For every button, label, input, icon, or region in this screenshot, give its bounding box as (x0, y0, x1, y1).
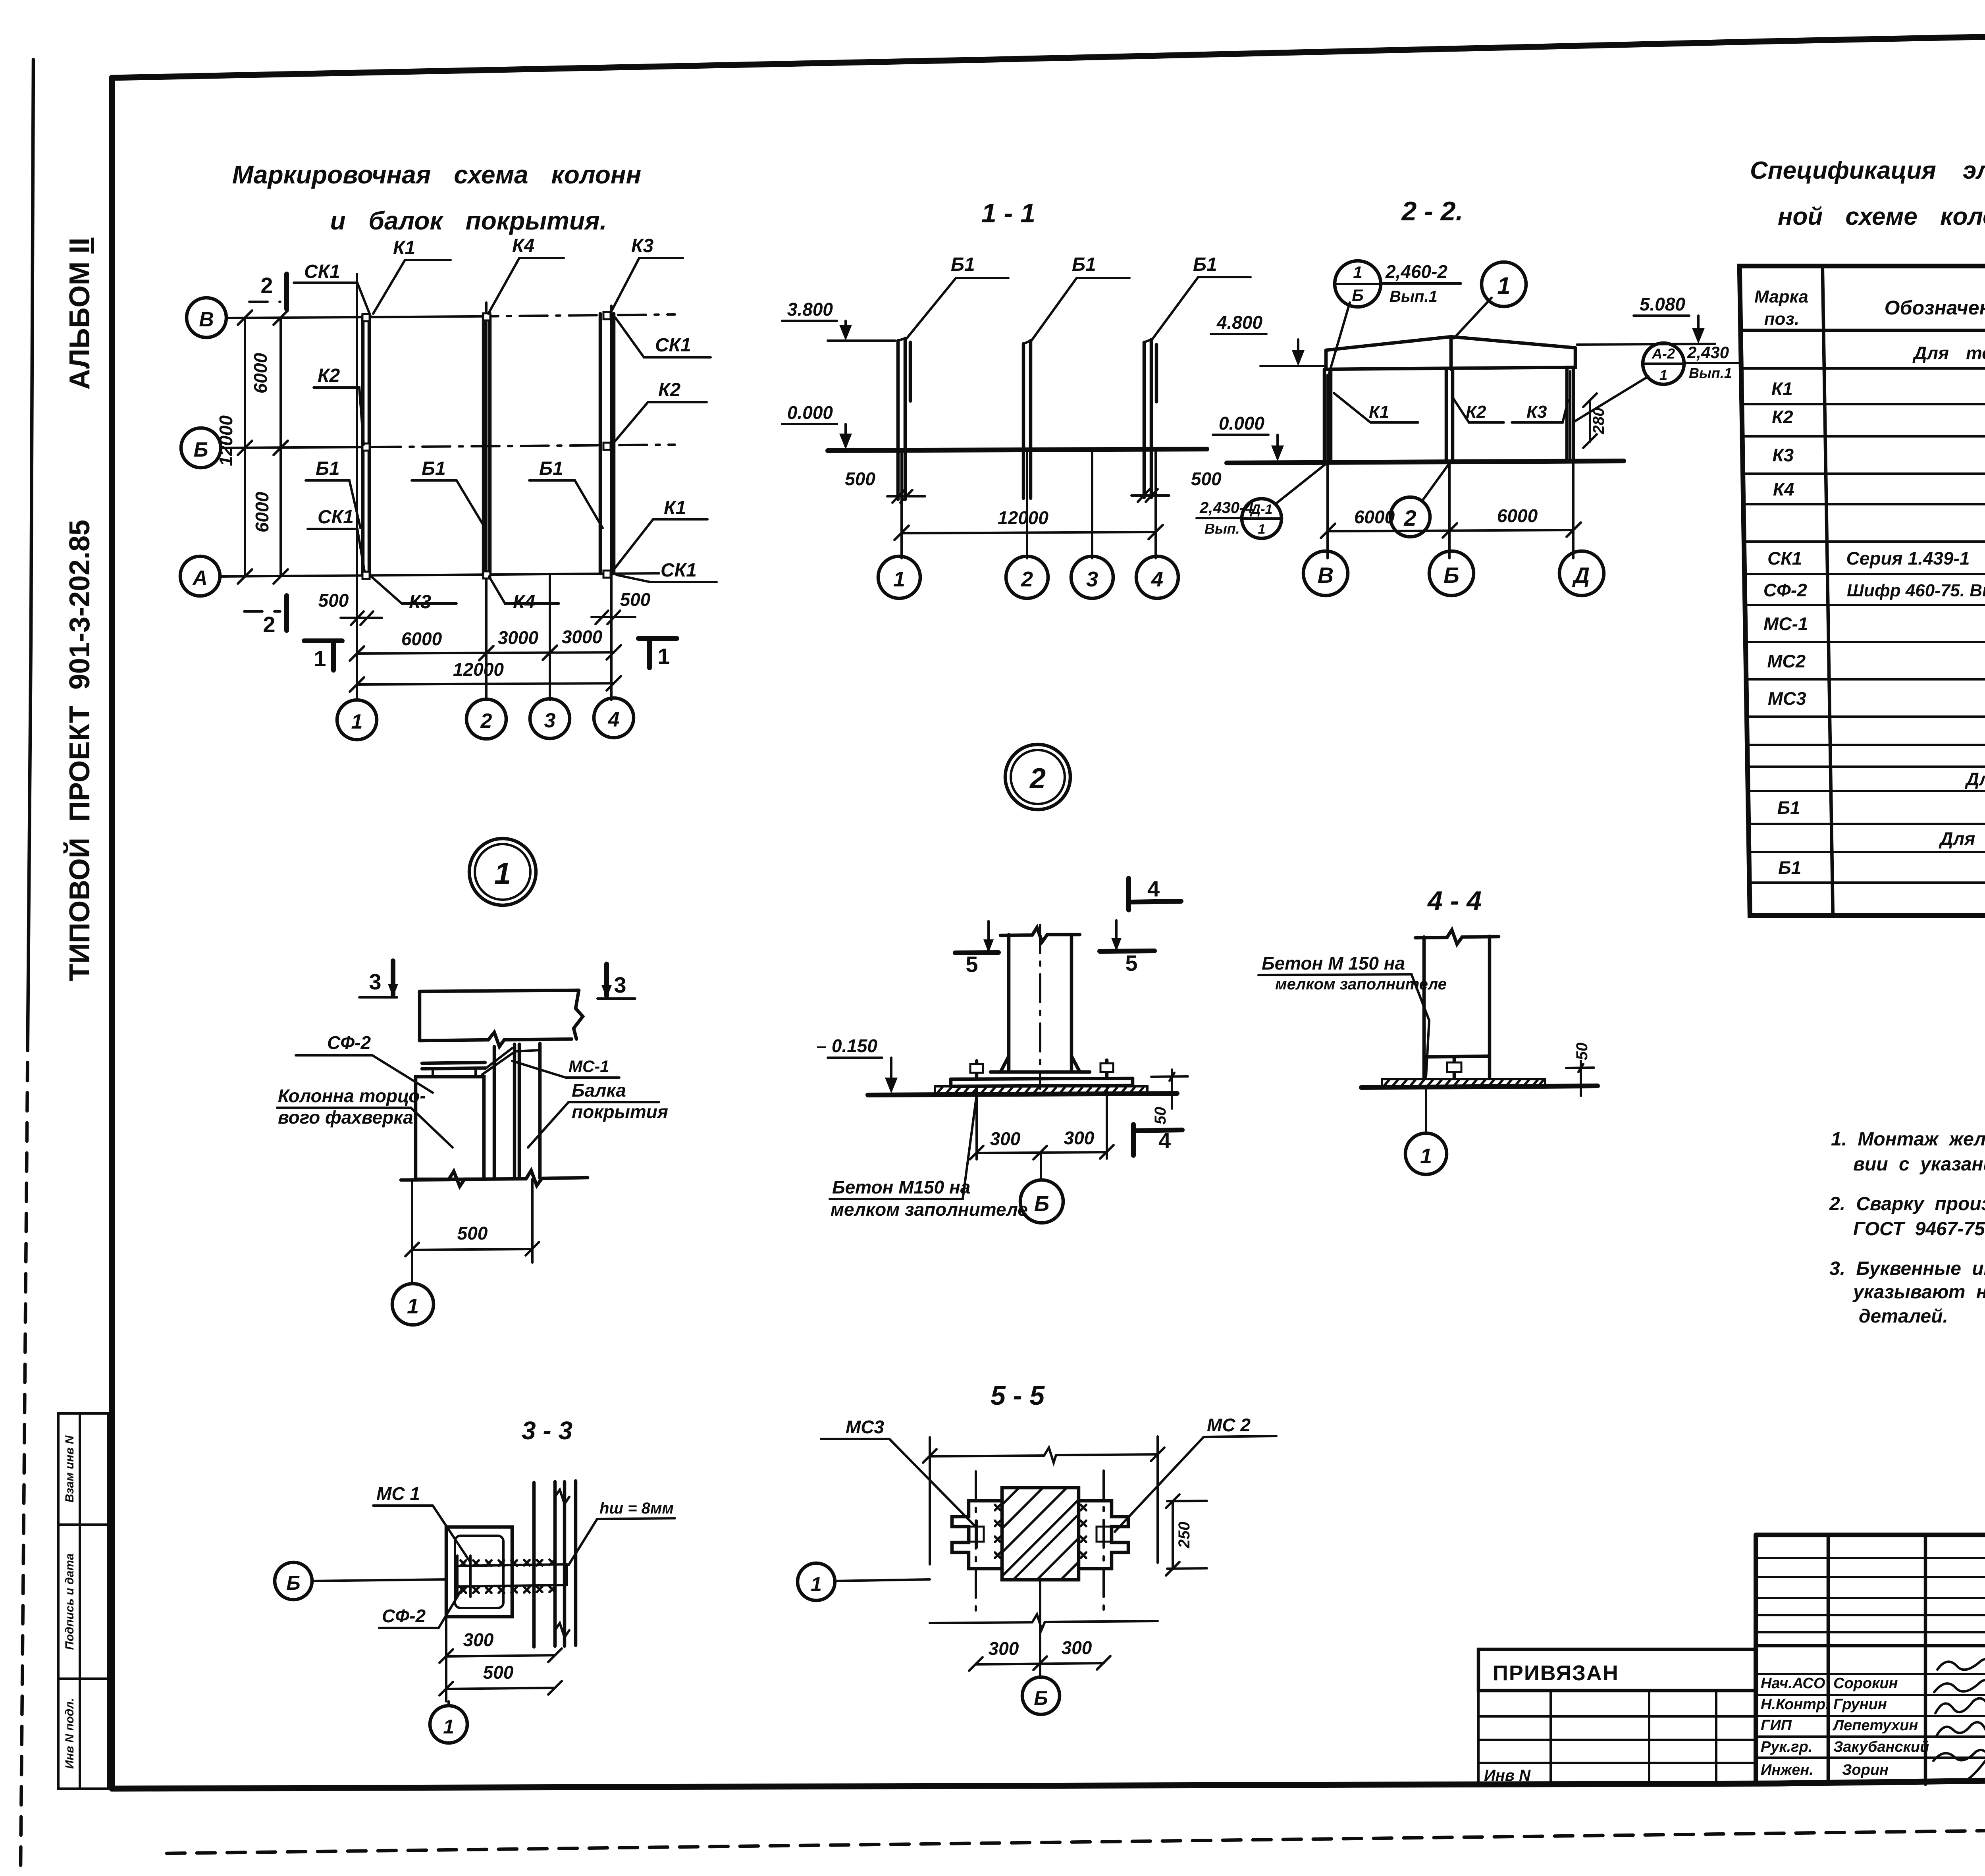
label СК1 top left (294, 261, 371, 317)
grid axis circle Б (181, 428, 221, 468)
svg-text:МС3: МС3 (1767, 688, 1806, 709)
svg-text:500: 500 (1191, 469, 1222, 489)
svg-text:3000: 3000 (562, 627, 603, 647)
svg-text:300: 300 (1062, 1637, 1092, 1658)
title block mid full line (1756, 1644, 1985, 1648)
СФ-2 element in plan with welds (detail 3-3) (457, 1556, 567, 1597)
svg-text:МС3: МС3 (846, 1417, 885, 1437)
svg-text:К1: К1 (1771, 378, 1793, 399)
label Балка покрытия (528, 1080, 668, 1147)
svg-text:Шифр 460-75. Вып.1,2: Шифр 460-75. Вып.1,2 (1846, 581, 1985, 600)
grid circle В (2-2) (1303, 551, 1348, 596)
svg-text:К2: К2 (318, 365, 340, 386)
column foot flanges (base detail) (991, 1056, 1090, 1072)
svg-text:1: 1 (314, 646, 326, 671)
label МС3 (detail 5-5) (821, 1417, 981, 1532)
grout pad hatched (detail 4-4) (1382, 1079, 1545, 1087)
column post axis4 (1-1) (1144, 339, 1156, 497)
label Б1 axis2 (412, 458, 485, 528)
svg-text:Б: Б (194, 438, 208, 461)
beam покрытия (detail 1) (420, 990, 583, 1047)
svg-text:300: 300 (989, 1638, 1019, 1659)
svg-text:Инв N подл.: Инв N подл. (63, 1698, 76, 1769)
label К1 top (373, 237, 451, 314)
svg-text:указывают на наличие дополн: указывают на наличие дополнительных закл… (1852, 1282, 1985, 1303)
detail bubble 2 (double circle) (1005, 744, 1070, 810)
dim line 6000 3000 3000 (350, 627, 621, 661)
svg-text:Инв N: Инв N (1484, 1767, 1531, 1784)
svg-text:6000: 6000 (250, 353, 271, 393)
grid axis circle В (187, 298, 226, 337)
svg-text:ТИПОВОЙ ПРОЕКТ 901-3-202.85: ТИПОВОЙ ПРОЕКТ 901-3-202.85 (63, 520, 96, 981)
svg-text:12000: 12000 (998, 507, 1048, 528)
dim line 12000 (350, 659, 621, 692)
svg-text:3 - 3: 3 - 3 (522, 1416, 572, 1445)
signature squiggles (1933, 1658, 1985, 1782)
svg-text:Спецификация элементов к: Спецификация элементов к маркировоч- (1750, 157, 1985, 184)
dim 500 (detail 3-3) (439, 1617, 562, 1701)
section mark 4 top (base detail) (1129, 876, 1181, 910)
svg-text:Для температуры tн =-20°с,-3: Для температуры tн =-20°с,-30°с,-40°с (1912, 343, 1985, 363)
row МС3 (1767, 688, 1985, 709)
svg-text:МС-1: МС-1 (569, 1057, 609, 1076)
dim 250 (detail 5-5) (1166, 1494, 1207, 1575)
label К2 (2-2) (1453, 399, 1504, 422)
label СК1 left lower (308, 507, 364, 571)
section 1-1 ground line (828, 449, 1207, 451)
svg-text:Б1: Б1 (1193, 254, 1217, 275)
svg-text:К2: К2 (1771, 407, 1793, 427)
svg-text:Сорокин: Сорокин (1833, 1675, 1898, 1692)
svg-text:К1: К1 (664, 497, 686, 519)
svg-text:вии с указаниями серии 1.42: вии с указаниями серии 1.423-3. 460 - 75 (1853, 1154, 1985, 1175)
grid line А (220, 573, 659, 576)
detail 5-5 title (991, 1380, 1045, 1411)
row СФ-2 (1763, 580, 1985, 600)
axis dash-dot lines (detail 5-5) (976, 1471, 1104, 1610)
svg-text:hш = 8мм: hш = 8мм (599, 1500, 674, 1517)
grid bubble Б (detail 5-5) (1022, 1580, 1060, 1714)
svg-text:4: 4 (608, 708, 620, 731)
row К4 (1773, 479, 1985, 499)
label К1 right lower (615, 497, 707, 569)
grid circle 1 (337, 700, 377, 740)
dim 500 (1-1 right) (1131, 469, 1222, 502)
table row lines (1741, 368, 1985, 883)
level mark 0.000 (2-2) (1213, 413, 1284, 461)
svg-text:Д-1: Д-1 (1250, 502, 1273, 517)
svg-text:Б1: Б1 (316, 458, 340, 479)
svg-text:300: 300 (463, 1629, 494, 1650)
svg-text:мелком заполнителе: мелком заполнителе (831, 1199, 1028, 1220)
dim 500 (1-1 left) (845, 469, 925, 503)
section mark 3 left (detail 1) (359, 961, 398, 997)
bubble Д-1 ref 2.430-4 (1197, 464, 1326, 538)
svg-text:1: 1 (494, 857, 511, 891)
grid circle 3 (530, 699, 570, 738)
detail 3-3 title (522, 1416, 572, 1445)
dim 500 left (318, 590, 382, 625)
row Б1 (КЖИ 60) (1777, 797, 1985, 818)
header Обозначение (1884, 297, 1985, 319)
svg-text:СК1: СК1 (655, 335, 691, 356)
svg-text:К4: К4 (1773, 479, 1794, 499)
dim 280 (2-2 right) (1583, 393, 1607, 448)
svg-text:Б: Б (1352, 286, 1364, 305)
row МС-1 (1763, 613, 1985, 634)
svg-text:500: 500 (457, 1223, 488, 1244)
svg-text:6000: 6000 (252, 492, 272, 532)
svg-text:1: 1 (407, 1294, 419, 1318)
svg-text:6000: 6000 (1497, 505, 1538, 526)
svg-text:Рук.гр.: Рук.гр. (1761, 1739, 1812, 1755)
svg-text:5 - 5: 5 - 5 (991, 1380, 1045, 1411)
label Б1 axis4 (529, 458, 603, 528)
svg-text:3: 3 (1086, 567, 1098, 591)
svg-text:500: 500 (845, 469, 875, 489)
svg-text:1: 1 (893, 567, 905, 591)
label Б1 post2 (1031, 254, 1129, 341)
svg-text:ГИП: ГИП (1761, 1717, 1792, 1734)
level mark 4.800 (1211, 312, 1324, 366)
dim 300 300 (detail 5-5) (969, 1637, 1110, 1671)
grid circle Д (2-2) (1559, 551, 1604, 596)
svg-text:В: В (199, 308, 214, 331)
svg-text:4: 4 (1147, 876, 1160, 901)
bubble 1 (roof apex) (1454, 262, 1526, 338)
svg-text:1: 1 (443, 1716, 454, 1738)
label МС2 (detail 5-5) (1115, 1415, 1276, 1532)
label К4 top (488, 235, 564, 314)
inner base line and anchor (detail 4-4) (1424, 1056, 1490, 1078)
bubble 1 (detail 5-5) (798, 1563, 930, 1600)
column Б (2-2) (1446, 369, 1453, 462)
top dim line (detail 5-5) (923, 1436, 1164, 1564)
svg-text:Нач.АСО: Нач.АСО (1761, 1675, 1825, 1692)
svg-text:1: 1 (1420, 1144, 1432, 1168)
svg-text:1: 1 (1353, 263, 1362, 281)
svg-text:Грунин: Грунин (1833, 1696, 1887, 1713)
level -0.150 (817, 1035, 898, 1093)
svg-text:МС 1: МС 1 (376, 1483, 420, 1504)
section mark 1 bottom left (304, 641, 342, 671)
svg-text:1 - 1: 1 - 1 (981, 198, 1035, 228)
dim 50 (detail 4-4) (1566, 1043, 1594, 1096)
svg-text:К2: К2 (1466, 402, 1486, 422)
svg-text:Взам инв N: Взам инв N (63, 1435, 76, 1502)
ground line (detail 4-4) (1361, 1086, 1598, 1087)
svg-text:500: 500 (318, 590, 349, 611)
signature row lines (1756, 1674, 1985, 1758)
svg-text:2: 2 (263, 612, 275, 637)
svg-text:280: 280 (1590, 408, 1607, 435)
svg-text:МС 2: МС 2 (1207, 1415, 1251, 1435)
grid bubble 1 (detail 4-4) (1405, 1087, 1447, 1174)
grid bubble 1 (detail 1) (392, 1284, 434, 1325)
label Бетон М150 (base detail) (830, 1095, 1028, 1220)
svg-text:МС-1: МС-1 (1763, 613, 1808, 634)
left vertical dim line 12000 (216, 310, 252, 584)
svg-text:1: 1 (1659, 367, 1667, 383)
svg-text:Обозначение: Обозначение (1884, 297, 1985, 319)
dim 300 (detail 3-3) (439, 1629, 562, 1663)
svg-text:3000: 3000 (498, 627, 539, 648)
svg-text:Б1: Б1 (1777, 797, 1800, 818)
section mark 2 bottom (244, 596, 287, 637)
svg-text:К4: К4 (513, 592, 535, 613)
label Б1 axis1 (306, 458, 360, 528)
label Колонна торцового фахверка (277, 1085, 453, 1147)
detail bubble 1 (double circle) (469, 839, 536, 905)
band t=-30-40 row (1938, 828, 1985, 849)
svg-text:4 - 4: 4 - 4 (1427, 886, 1482, 916)
grid line В (226, 314, 675, 318)
svg-text:покрытия: покрытия (572, 1101, 668, 1122)
СФ-2 steel element plate (detail 1) (422, 1048, 513, 1074)
label СФ-2 (detail 1) (296, 1032, 433, 1093)
svg-text:Б: Б (286, 1572, 300, 1594)
dim 500 right (592, 589, 651, 624)
svg-text:2: 2 (1021, 567, 1033, 591)
label К3 (2-2) (1512, 400, 1568, 422)
svg-text:500: 500 (483, 1662, 514, 1683)
anchor bolts (base detail) (970, 1060, 1113, 1078)
grid circle Б (2-2) (1429, 551, 1474, 596)
svg-text:мелком заполнителе: мелком заполнителе (1275, 976, 1447, 993)
svg-text:МС2: МС2 (1767, 651, 1806, 671)
title block outer (1756, 1535, 1985, 1783)
band t=-20 row (1964, 769, 1985, 789)
svg-text:Б1: Б1 (422, 458, 446, 479)
svg-text:и балок покрытия.: и балок покрытия. (330, 206, 607, 235)
level mark 0.000 (1-1) (782, 402, 852, 449)
svg-text:2: 2 (1029, 763, 1046, 794)
label hш=8мм (detail 3-3) (569, 1500, 675, 1565)
svg-text:К4: К4 (512, 235, 534, 256)
svg-text:2: 2 (480, 710, 492, 733)
svg-text:СК1: СК1 (318, 507, 354, 528)
svg-text:12000: 12000 (216, 415, 236, 466)
svg-text:Вып.1: Вып.1 (1689, 365, 1732, 381)
svg-text:2. Сварку производить элект: 2. Сварку производить электродами типа Э… (1829, 1193, 1985, 1215)
label СК1 bottom right (617, 560, 717, 582)
svg-text:К1: К1 (393, 237, 415, 258)
section 2-2 roof beam (1326, 337, 1575, 375)
section 2-2 title (1401, 196, 1463, 226)
band temperatures row (1912, 343, 1985, 363)
svg-text:1: 1 (1497, 272, 1510, 299)
dim line 12000 (1-1) (894, 449, 1163, 558)
svg-text:Д: Д (1572, 563, 1590, 588)
svg-text:Марка: Марка (1754, 287, 1809, 307)
svg-text:4.800: 4.800 (1216, 312, 1263, 333)
svg-text:Зорин: Зорин (1842, 1762, 1889, 1778)
svg-text:5: 5 (966, 952, 978, 977)
table header row line (1740, 329, 1985, 332)
label К2 left (314, 365, 364, 445)
label СФ-2 (detail 3-3) (379, 1588, 463, 1628)
svg-text:0.000: 0.000 (787, 402, 833, 423)
svg-text:К3: К3 (409, 592, 432, 613)
dim 500 (detail 1) (405, 1179, 539, 1263)
svg-text:Колонна торцо-: Колонна торцо- (278, 1085, 426, 1106)
label К4 bottom (489, 576, 559, 613)
left bottom boxes column (58, 1413, 108, 1789)
section mark 5 right (base detail) (1100, 920, 1154, 976)
label Б1 post3 (1152, 254, 1251, 339)
svg-text:2,460-2: 2,460-2 (1385, 261, 1447, 282)
row К3 (1772, 445, 1985, 465)
svg-text:2,430: 2,430 (1687, 343, 1729, 362)
grid bubble Б (base detail) (1020, 1152, 1063, 1223)
svg-text:Н.Контр.: Н.Контр. (1761, 1696, 1830, 1713)
svg-text:вого фахверка: вого фахверка (278, 1107, 413, 1128)
row МС2 (1767, 651, 1985, 671)
dim 50 (base detail) (1151, 1070, 1188, 1124)
bubble 1/Б with ref 2.460-2 (1329, 261, 1461, 373)
dim line 6000 6000 (2-2) (1321, 461, 1581, 558)
svg-text:1: 1 (351, 710, 363, 733)
column В (2-2) (1324, 369, 1331, 462)
label К2 right (611, 380, 707, 445)
bottom dim line with break (detail 5-5) (930, 1614, 1158, 1629)
svg-text:СФ-2: СФ-2 (382, 1606, 426, 1626)
label К3 top right (611, 235, 683, 313)
signature labels and names (1761, 1675, 1929, 1778)
svg-text:0.000: 0.000 (1219, 413, 1265, 434)
weld x-marks (detail 5-5) (995, 1505, 1086, 1558)
svg-text:Б1: Б1 (539, 458, 563, 479)
ПРИВЯЗАН block (1478, 1649, 1756, 1784)
label К3 bottom (371, 576, 457, 613)
column axis 1 vertical (356, 274, 358, 700)
beam Б1 on axis 1 (double line) (363, 316, 369, 576)
column shaft (detail 4-4) (1415, 930, 1499, 1078)
grid circle 4 (1-1) (1136, 556, 1178, 598)
svg-text:СК1: СК1 (661, 560, 697, 581)
table outer border (1740, 266, 1985, 916)
svg-text:1: 1 (811, 1573, 822, 1595)
header Марка поз. (1754, 287, 1809, 329)
svg-text:поз.: поз. (1764, 309, 1799, 329)
svg-text:Б1: Б1 (1778, 857, 1801, 878)
ground line (base detail) (868, 1093, 1177, 1095)
svg-text:ГОСТ 9467-75, hш.= 6мм, кроме: ГОСТ 9467-75, hш.= 6мм, кроме оговоренны… (1853, 1219, 1985, 1240)
left element МС3 block (detail 5-5) (952, 1501, 1002, 1569)
svg-text:12000: 12000 (453, 659, 504, 680)
plan title (232, 160, 641, 235)
svg-text:50: 50 (1573, 1043, 1591, 1060)
svg-text:– 0.150: – 0.150 (817, 1035, 878, 1056)
svg-text:500: 500 (620, 589, 651, 610)
torcevoy column (detail 1) (416, 1068, 484, 1179)
svg-text:3: 3 (544, 709, 556, 732)
svg-text:6000: 6000 (1354, 507, 1395, 527)
svg-text:2: 2 (1403, 505, 1416, 530)
grid circle 4 (594, 698, 634, 738)
right element МС2 block (detail 5-5) (1079, 1501, 1128, 1569)
beam edge lines (detail 3-3) (534, 1481, 576, 1647)
column post axis1 (1-1) (898, 338, 910, 499)
beam Б1 on axis 4 (double line) (600, 314, 614, 574)
svg-text:АЛЬБОМ II: АЛЬБОМ II (64, 238, 96, 390)
svg-text:1: 1 (657, 644, 670, 669)
svg-text:А: А (192, 567, 208, 590)
grid bubble Б (detail 3-3) (275, 1562, 446, 1600)
label К1 (2-2) (1334, 393, 1418, 422)
svg-text:6000: 6000 (401, 629, 442, 649)
svg-text:3: 3 (614, 972, 626, 997)
svg-text:К3: К3 (1526, 402, 1547, 422)
column axis 3 vertical (549, 575, 551, 700)
grid circle 2 (466, 699, 506, 739)
section mark 4 bottom (base detail) (1133, 1124, 1182, 1155)
svg-text:Б: Б (1034, 1192, 1049, 1216)
base plate (base detail) (951, 1078, 1133, 1086)
svg-text:Б: Б (1034, 1687, 1048, 1709)
svg-text:Инжен.: Инжен. (1761, 1762, 1813, 1778)
svg-text:Подпись и дата: Подпись и дата (63, 1553, 76, 1650)
column hatched block (detail 5-5) (1002, 1488, 1079, 1580)
title block thin upper rows (1756, 1558, 1985, 1632)
svg-text:ПРИВЯЗАН: ПРИВЯЗАН (1493, 1661, 1619, 1685)
svg-text:3: 3 (369, 969, 381, 994)
section mark 2 top (249, 273, 287, 309)
column axis 4 vertical (610, 306, 613, 700)
svg-text:В: В (1318, 563, 1334, 588)
row К1 (1771, 378, 1985, 399)
svg-text:Для температуры t=-20°С: Для температуры t=-20°С (1964, 769, 1985, 789)
svg-text:4: 4 (1151, 567, 1163, 591)
bubble 2 (base of column Б) (1390, 464, 1449, 537)
svg-text:Бетон М150 на: Бетон М150 на (832, 1177, 970, 1197)
svg-text:1: 1 (1258, 522, 1266, 537)
svg-text:Лепетухин: Лепетухин (1832, 1717, 1918, 1734)
svg-text:Балка: Балка (572, 1080, 626, 1101)
svg-text:300: 300 (990, 1128, 1021, 1149)
svg-text:К3: К3 (1772, 445, 1794, 465)
svg-text:деталей.: деталей. (1859, 1306, 1948, 1327)
svg-text:А-2: А-2 (1652, 345, 1675, 362)
svg-text:Для температуры t=-30°С, -40: Для температуры t=-30°С, -40°с (1938, 828, 1985, 849)
svg-text:Маркировочная схема колонн: Маркировочная схема колонн (232, 160, 641, 189)
section mark 5 left (base detail) (955, 921, 998, 977)
grid circle 3 (1-1) (1071, 556, 1113, 598)
svg-text:Б1: Б1 (1072, 254, 1096, 275)
row Б1 (КЖН-70) (1778, 857, 1985, 878)
column axis dash-dot (base detail) (1039, 925, 1041, 1089)
svg-text:Вып.: Вып. (1204, 521, 1240, 537)
svg-text:3.800: 3.800 (787, 299, 833, 320)
beam Б1 on axis 2 (double line) (484, 315, 490, 575)
svg-text:СК1: СК1 (1767, 548, 1802, 569)
left vertical dim line 6000+6000 (250, 310, 288, 584)
svg-text:К2: К2 (658, 380, 681, 401)
detail 4-4 title (1427, 886, 1482, 916)
svg-text:2: 2 (260, 273, 273, 298)
column axis 2 vertical (485, 303, 488, 700)
svg-text:2 - 2.: 2 - 2. (1401, 196, 1463, 226)
label Бетон М150 (detail 4-4) (1258, 953, 1447, 1077)
svg-text:Вып.1: Вып.1 (1389, 288, 1438, 305)
notes paragraph (1829, 1129, 1985, 1327)
svg-text:50: 50 (1152, 1107, 1169, 1125)
column Д (2-2) (1567, 367, 1573, 461)
left strip rotated title "ТИПОВОЙ ПРОЕКТ 901-3-202.85" (63, 520, 96, 981)
specification table (1740, 266, 1985, 916)
svg-text:5.080: 5.080 (1640, 294, 1686, 314)
svg-text:1. Монтаж железобетонных ко: 1. Монтаж железобетонных конструкций вес… (1831, 1129, 1985, 1150)
